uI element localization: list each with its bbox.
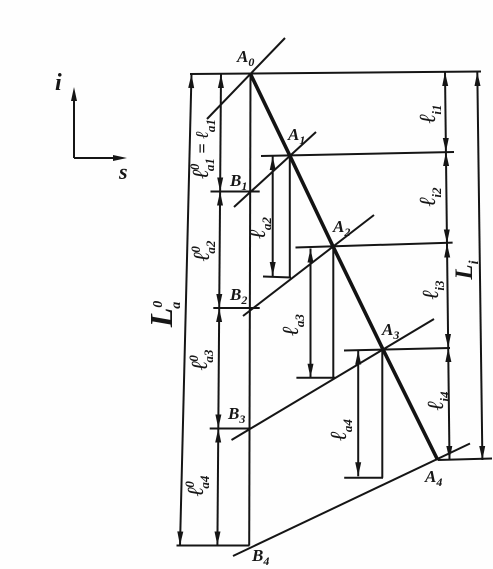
axis s (horizontal arrow) [74, 155, 127, 161]
ray D3 through B3 and A3 [232, 319, 435, 440]
ray D0 through A0 [207, 38, 285, 119]
wire: vertical from A2 down [332, 247, 334, 378]
label B2 [229, 285, 247, 307]
dimension line la2 with arrows [270, 156, 276, 276]
wire: horizontal through A3 [344, 348, 450, 351]
svg-text:s: s [118, 159, 128, 184]
wire: vertical from A1 down [289, 157, 291, 278]
wire: top horizontal line through A0 [190, 72, 481, 75]
label li4 [423, 391, 452, 410]
ray D1 through B1 and A1 [234, 132, 316, 207]
dimension line Li (far right) with arrows [475, 72, 486, 460]
tick bottom of la4 [344, 477, 383, 479]
wire: vertical line A0 to B4 [249, 74, 250, 546]
label l0a3 [186, 349, 216, 370]
label la2 [245, 217, 274, 239]
label A3 [381, 320, 399, 342]
dimension line l0a1..l0a4 (inner left) with arrow pairs [215, 74, 224, 546]
label l0a1 = la1 [187, 119, 218, 179]
axis i (vertical arrow) [71, 87, 77, 158]
label la4 [326, 419, 355, 441]
label A1 [287, 125, 305, 147]
tick at B2 [213, 307, 259, 309]
dimension line la4 with arrows [355, 351, 361, 477]
tick bottom of la2 [263, 277, 291, 278]
dimension line li1..li4 (right) with arrow pairs [442, 72, 452, 460]
tick bottom of la3 [296, 377, 335, 379]
label l0a4 [182, 475, 212, 496]
label A2 [332, 217, 350, 239]
label B3 [227, 404, 245, 426]
thick ray A0-A4 [251, 74, 438, 460]
label li1 [415, 105, 444, 124]
wire: horizontal through A2 [296, 243, 453, 248]
tick at B3 [210, 428, 250, 430]
wire: bottom horizontal line through B4 [177, 545, 250, 547]
dimension line la3 with arrows [308, 249, 314, 378]
label la3 [278, 314, 307, 336]
dimension line L0a (outer left) with arrows [177, 74, 194, 546]
label i [55, 70, 62, 96]
wire: horizontal tick right of A4 [438, 459, 492, 461]
label Li [451, 260, 482, 280]
wire: horizontal through A1 [261, 152, 454, 156]
ray D4 through B4 and A4 [233, 444, 470, 557]
label L0a [143, 301, 184, 329]
label li3 [418, 280, 447, 299]
wire: vertical from A3 down [381, 348, 383, 478]
label A0 [236, 47, 254, 69]
label B1 [229, 171, 247, 193]
label A4 [424, 467, 442, 489]
label s [118, 159, 128, 184]
label l0a2 [188, 240, 218, 261]
label li2 [415, 187, 444, 206]
tick at B1 [211, 191, 260, 193]
label B4 [251, 546, 269, 568]
ray D2 through B2 and A2 [243, 215, 374, 316]
svg-text:i: i [55, 70, 62, 96]
